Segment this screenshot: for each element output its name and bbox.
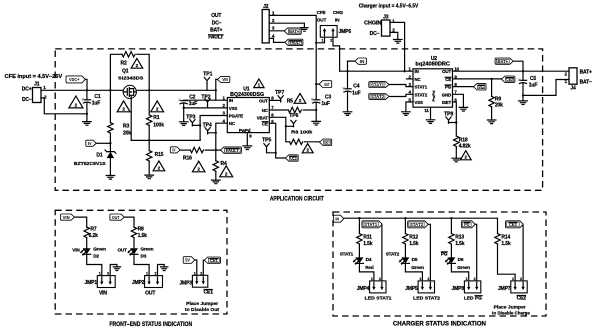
- jumper JMP8: [464, 281, 480, 293]
- svg-text:5V: 5V: [172, 148, 175, 153]
- LED D2: [83, 248, 91, 254]
- svg-text:2: 2: [474, 277, 476, 281]
- svg-text:1: 1: [99, 272, 101, 276]
- svg-text:2: 2: [158, 166, 161, 171]
- wire R16 to FAULT flag: [205, 149, 220, 151]
- wire IN line to C4: [347, 71, 349, 89]
- overline CE U1: [262, 121, 267, 123]
- wire JMP2 pin2 to ground: [158, 265, 165, 276]
- svg-text:R15: R15: [155, 152, 164, 158]
- svg-text:5V: 5V: [88, 141, 92, 146]
- svg-text:JMP5: JMP5: [405, 286, 418, 292]
- test point TP4 symbol: [205, 128, 210, 134]
- flag VIN: [217, 76, 229, 82]
- wire R3 to D1: [109, 133, 111, 151]
- flag STAT1 charger: [362, 221, 382, 228]
- wire TP3 stem tap: [192, 124, 200, 126]
- svg-text:OUT: OUT: [145, 290, 155, 296]
- junction TP3 on PGATE: [199, 124, 201, 126]
- resistor R15: [147, 151, 152, 162]
- test point TP5 symbol: [264, 144, 269, 150]
- svg-text:D5: D5: [412, 257, 418, 262]
- test point TP3 symbol: [190, 120, 195, 126]
- svg-text:1uF: 1uF: [529, 82, 538, 88]
- resistor R7: [84, 227, 89, 238]
- resistor R16: [190, 147, 203, 152]
- LED D4: [355, 257, 363, 263]
- wire R1 to gate line: [148, 125, 150, 140]
- svg-text:STAT2: STAT2: [386, 252, 400, 257]
- wire rail to R13: [450, 218, 452, 233]
- svg-text:TP5: TP5: [262, 138, 271, 144]
- overline PG at D6: [441, 251, 447, 253]
- wire J3 pin2 to ground: [390, 32, 398, 39]
- wire J4 pin1 to C5 ground: [523, 80, 569, 96]
- svg-text:OUT: OUT: [442, 69, 451, 74]
- resistor R8: [131, 227, 136, 238]
- resistor R5: [288, 107, 301, 112]
- flag 5V near D1: [86, 140, 97, 146]
- flag 5V front: [183, 257, 195, 264]
- wire D6 to JMP8 pin1: [451, 263, 468, 281]
- svg-text:VIN: VIN: [72, 248, 80, 253]
- flag PG app: [474, 84, 487, 90]
- svg-text:TP1: TP1: [203, 71, 212, 77]
- svg-text:1.5k: 1.5k: [409, 241, 419, 247]
- svg-text:OUT: OUT: [317, 18, 327, 23]
- wire STAT2 flag to U2 pin4: [389, 94, 413, 96]
- wire to OUT flag: [316, 83, 319, 85]
- svg-text:20k: 20k: [495, 103, 503, 109]
- wire D3 to JMP2 pin1: [134, 254, 149, 275]
- svg-text:R1: R1: [153, 115, 159, 121]
- capacitor C2: [180, 100, 187, 102]
- svg-text:R7: R7: [90, 226, 96, 232]
- resistor R1: [147, 115, 152, 126]
- connector J2: [262, 10, 269, 43]
- test point TP2 symbol: [205, 99, 210, 105]
- test point TP6 symbol: [291, 120, 296, 126]
- junction NC/R4/FAULT: [215, 149, 217, 151]
- svg-text:J1: J1: [34, 82, 40, 88]
- junction 5V/R3/D1: [109, 142, 111, 144]
- junction R12 on rail: [404, 217, 406, 219]
- wire R8 to D3: [133, 238, 135, 249]
- LED D5: [401, 257, 409, 263]
- junction R9 on CE line: [490, 78, 492, 80]
- ground below R18: [452, 158, 461, 162]
- note triangle 2 near R2: [131, 58, 143, 68]
- svg-text:1.5k: 1.5k: [138, 233, 148, 239]
- wire 5V to R16: [180, 149, 190, 151]
- wire rail to R12: [404, 218, 406, 233]
- svg-text:STAT1: STAT1: [371, 82, 385, 87]
- svg-text:2: 2: [225, 172, 228, 177]
- svg-text:CFE input = 4.5V–26V: CFE input = 4.5V–26V: [5, 74, 63, 80]
- ground below C5: [519, 101, 528, 105]
- svg-text:1.5k: 1.5k: [363, 241, 373, 247]
- svg-text:C4: C4: [353, 84, 359, 90]
- wire J1 pin1 to Q1 rail: [41, 89, 123, 91]
- svg-text:1.5k: 1.5k: [455, 241, 465, 247]
- junction J3 on IN line: [403, 70, 405, 72]
- wire STAT1 flag to U2 pin3: [389, 85, 413, 87]
- junction R1/R15 on gate line: [148, 139, 150, 141]
- note triangle 2 above R1: [151, 101, 164, 112]
- svg-text:Green: Green: [93, 247, 106, 252]
- svg-text:JMP7: JMP7: [498, 286, 511, 292]
- svg-text:BAT+: BAT+: [210, 27, 222, 33]
- note triangle 2 below R4: [220, 166, 233, 177]
- svg-text:JMP2: JMP2: [132, 280, 145, 286]
- wire charger IN rail: [344, 218, 498, 233]
- test point TP8 symbol: [446, 117, 451, 123]
- resistor R9: [489, 96, 494, 107]
- svg-text:R8: R8: [138, 226, 144, 232]
- svg-text:CHG: CHG: [333, 10, 343, 15]
- svg-text:2: 2: [154, 272, 156, 276]
- wire C2 to ground: [183, 104, 185, 122]
- svg-text:ISET: ISET: [442, 100, 452, 105]
- svg-text:1: 1: [371, 277, 373, 281]
- wire rail to R11: [358, 218, 360, 233]
- junction R2/R3 on rail: [109, 89, 111, 91]
- svg-text:BAT+: BAT+: [498, 59, 509, 64]
- connector J1: [33, 88, 42, 103]
- flag CE1 front: [204, 257, 220, 263]
- wire U2 NC pin2 stub: [407, 78, 414, 80]
- wire U1 pin9 to ground: [246, 133, 248, 146]
- svg-text:2: 2: [197, 167, 200, 172]
- LED D3: [130, 248, 138, 254]
- svg-text:1: 1: [466, 277, 468, 281]
- svg-text:1uF: 1uF: [352, 90, 361, 96]
- junction VSS/C2 column: [183, 107, 185, 109]
- jumper JMP5: [418, 281, 434, 293]
- ground JMP2: [161, 267, 168, 271]
- svg-text:4.82k: 4.82k: [459, 144, 471, 150]
- wire IN line to U1 pin1: [184, 99, 228, 101]
- wire JMP1 pin2 to ground: [110, 265, 117, 276]
- svg-text:2: 2: [200, 271, 202, 275]
- svg-text:DC–: DC–: [370, 31, 380, 37]
- flag VIN front: [61, 214, 75, 220]
- svg-text:D2: D2: [93, 254, 99, 259]
- wire U1 PGATE to gate line: [200, 116, 227, 141]
- svg-text:to Disable Out: to Disable Out: [185, 307, 220, 313]
- op-amp U2 bq24080DRC box: [413, 69, 453, 107]
- svg-text:R6 100k: R6 100k: [291, 130, 312, 136]
- svg-text:APPLICATION CIRCUIT: APPLICATION CIRCUIT: [270, 196, 324, 203]
- svg-text:CHGIN: CHGIN: [364, 20, 382, 26]
- svg-text:bq24080DRC: bq24080DRC: [415, 62, 450, 68]
- svg-text:NC: NC: [262, 108, 269, 113]
- flag CE2 charger: [506, 221, 524, 228]
- wire D1 to ground: [109, 158, 111, 175]
- svg-text:NC: NC: [415, 77, 422, 82]
- svg-text:CHARGER STATUS INDICATION: CHARGER STATUS INDICATION: [393, 321, 486, 328]
- svg-text:TP8: TP8: [444, 111, 453, 117]
- flag STAT2 app: [369, 94, 389, 100]
- svg-text:OUT: OUT: [324, 82, 330, 87]
- svg-text:IN: IN: [229, 98, 233, 103]
- svg-text:NC: NC: [229, 121, 236, 126]
- wire JMP6 pin1 to OUT column: [316, 37, 324, 43]
- ground below U2 VSS: [402, 112, 411, 116]
- svg-text:C2: C2: [189, 95, 195, 101]
- flag OUT front: [110, 214, 124, 220]
- ground J2 pin2: [301, 28, 308, 32]
- wire TP7 stem: [280, 100, 282, 102]
- wire C3 to ground: [315, 103, 317, 121]
- wire D5 to JMP5 pin1: [405, 263, 422, 281]
- svg-text:TP6: TP6: [289, 113, 298, 119]
- wire U1 CE pin5 to CE1 flag: [269, 123, 285, 158]
- svg-text:OUT: OUT: [259, 98, 268, 103]
- svg-text:JMP8: JMP8: [452, 286, 465, 292]
- svg-text:1uF: 1uF: [92, 101, 101, 107]
- wire TP1 stem: [206, 84, 208, 91]
- svg-text:C3: C3: [325, 94, 331, 100]
- svg-text:PwPd: PwPd: [239, 128, 251, 133]
- overline CE U2: [445, 76, 451, 78]
- svg-text:1: 1: [419, 277, 421, 281]
- note triangle 2 near R18: [460, 151, 471, 160]
- flag BAT+ J2: [284, 28, 301, 34]
- svg-text:6.2k: 6.2k: [89, 233, 99, 239]
- wire gate line to R15: [148, 140, 150, 150]
- wire J2 pin2 to ground: [269, 23, 304, 27]
- svg-text:JMP3: JMP3: [179, 280, 192, 286]
- resistor R11: [357, 234, 362, 245]
- svg-text:OUT: OUT: [211, 13, 221, 19]
- overline PG in LED PG: [475, 295, 482, 297]
- wire U1 VSS to C2 ground column: [184, 107, 228, 109]
- svg-text:R11: R11: [363, 235, 372, 241]
- svg-text:J4: J4: [570, 85, 576, 91]
- svg-text:2: 2: [306, 148, 309, 153]
- svg-text:STAT1: STAT1: [415, 85, 428, 90]
- capacitor C4: [344, 88, 351, 90]
- flag BAT+ near C5: [495, 58, 513, 64]
- wire TP8 stem tap: [449, 122, 457, 125]
- wire U1 OUT pin8 stub: [269, 99, 280, 101]
- junction rail/VIN vertical: [215, 89, 217, 91]
- svg-text:OUT: OUT: [112, 215, 120, 220]
- svg-text:PGATE: PGATE: [229, 114, 243, 119]
- svg-text:CE1: CE1: [204, 290, 214, 296]
- resistor R2: [122, 52, 135, 57]
- flag FAULT J2: [285, 39, 303, 45]
- wire gate node to PGATE: [131, 139, 200, 141]
- wire U1 NC pin4 down: [216, 123, 228, 150]
- svg-text:BAT+: BAT+: [289, 29, 300, 34]
- ground below C4: [343, 112, 352, 116]
- svg-text:BQ24300DSG: BQ24300DSG: [230, 92, 264, 98]
- op-amp U1 BQ24300DSG box: [227, 98, 269, 133]
- svg-text:STAT1: STAT1: [340, 252, 354, 257]
- wire C5 to ground: [522, 84, 524, 101]
- svg-text:R5: R5: [287, 99, 293, 105]
- wire STAT1 flag to JMP4 pin2: [381, 226, 383, 281]
- wire VIN node vertical: [215, 79, 217, 100]
- svg-text:BAT+: BAT+: [324, 140, 330, 145]
- connector J3: [382, 20, 391, 36]
- svg-text:2: 2: [427, 277, 429, 281]
- svg-text:JMP1: JMP1: [85, 280, 98, 286]
- junction OUT flag: [315, 83, 317, 85]
- ground below D1: [106, 176, 115, 180]
- svg-text:PwPd: PwPd: [431, 90, 436, 101]
- wire STAT2 flag to JMP5 pin2: [428, 224, 430, 281]
- svg-text:VIN: VIN: [222, 77, 228, 82]
- svg-text:DC–: DC–: [22, 97, 32, 103]
- wire rail to C5: [522, 71, 524, 80]
- jumper JMP7: [511, 281, 527, 293]
- svg-text:JMP6: JMP6: [339, 29, 352, 35]
- wire D2 to JMP1 pin1: [87, 254, 102, 275]
- svg-text:STAT2: STAT2: [410, 222, 424, 227]
- svg-text:Place Jumper: Place Jumper: [186, 301, 218, 307]
- svg-text:STAT2: STAT2: [371, 94, 385, 99]
- wire R11 to D4: [358, 244, 360, 257]
- note triangle 2 near J1: [69, 96, 83, 108]
- jumper JMP4: [370, 281, 386, 293]
- wire U1 NC pin7 to R5: [269, 109, 288, 111]
- svg-text:STAT1: STAT1: [364, 222, 378, 227]
- svg-text:VSS: VSS: [415, 100, 424, 105]
- wire JMP6 pin2 to IN line: [333, 37, 340, 71]
- junction R2/R1 on rail: [148, 89, 150, 91]
- front-end status dashed border: [55, 210, 227, 314]
- note triangle 2 below R16: [192, 161, 205, 172]
- wire TP5 stem tap: [267, 150, 276, 153]
- junction BAT+/C5 on OUT rail: [522, 70, 524, 72]
- flag CE2 app: [502, 76, 515, 82]
- wire R4 to ground: [215, 171, 217, 180]
- junction TP5 on CE: [275, 152, 277, 154]
- wire U2 CE to CE2 flag: [453, 78, 502, 80]
- wire J3 pin1 to IN line: [390, 22, 405, 71]
- svg-text:FRONT–END STATUS INDICATION: FRONT–END STATUS INDICATION: [109, 321, 192, 328]
- svg-text:R2: R2: [121, 60, 127, 66]
- svg-text:Place Jumper: Place Jumper: [494, 305, 526, 311]
- svg-text:D3: D3: [141, 254, 147, 259]
- svg-text:DC+: DC+: [22, 87, 32, 93]
- note triangle 2 below R15: [153, 161, 165, 171]
- ground J3 pin2: [394, 40, 403, 44]
- junction IN flag/C4: [346, 70, 348, 72]
- note triangle 2 below Q1: [117, 101, 130, 112]
- svg-text:GND: GND: [442, 92, 451, 97]
- junction TP4 on NC line: [215, 132, 217, 134]
- resistor R6: [290, 139, 303, 144]
- flag VDC+: [66, 76, 85, 83]
- capacitor C3: [313, 99, 320, 101]
- svg-text:C5: C5: [530, 76, 536, 82]
- overline CE1 below JMP3: [204, 289, 212, 291]
- svg-text:J3: J3: [383, 14, 389, 20]
- ground below R15: [145, 175, 154, 179]
- wire node to R4: [215, 150, 217, 161]
- svg-text:D6: D6: [458, 257, 464, 262]
- ground below R4: [212, 180, 221, 184]
- ground below U1 pin9: [243, 146, 252, 150]
- svg-text:Green: Green: [411, 265, 424, 270]
- wire C1 to ground: [86, 103, 88, 121]
- flag IN charger: [333, 215, 343, 222]
- capacitor C1: [83, 99, 90, 101]
- flag BAT+ near R6: [320, 139, 332, 146]
- svg-text:VBAT: VBAT: [257, 115, 268, 120]
- svg-text:2: 2: [299, 98, 302, 103]
- wire R12 to D5: [404, 244, 406, 257]
- svg-text:R12: R12: [409, 235, 418, 241]
- svg-text:R14: R14: [501, 235, 510, 241]
- svg-text:Green: Green: [141, 247, 154, 252]
- wire CE2 flag to JMP7 pin2: [522, 226, 524, 281]
- flag STAT1 app: [369, 82, 389, 88]
- wire rail to C1: [86, 90, 88, 100]
- svg-text:R9: R9: [495, 96, 501, 102]
- junction VDC+/C1 on rail: [86, 89, 88, 91]
- flag IN app: [355, 58, 367, 64]
- ground JMP1: [113, 267, 120, 271]
- junction R11 on rail: [358, 217, 360, 219]
- wire R14 to JMP7 pin1: [498, 244, 516, 281]
- overline PG U2: [445, 84, 451, 86]
- wire J1 pin2 return: [41, 98, 87, 114]
- note triangle 1 near U1: [254, 79, 264, 88]
- junction TP8 on ISET: [455, 121, 457, 123]
- svg-text:D4: D4: [366, 257, 372, 262]
- svg-text:20k: 20k: [123, 131, 131, 137]
- wire U2 ISET down to R18: [453, 102, 457, 136]
- jumper JMP3: [192, 275, 207, 287]
- svg-text:2: 2: [156, 107, 159, 112]
- note triangle 2 near R5: [294, 93, 306, 103]
- svg-text:R13: R13: [455, 235, 464, 241]
- svg-text:1: 1: [322, 39, 324, 43]
- resistor R13: [449, 234, 454, 245]
- resistor R4: [213, 161, 218, 172]
- svg-text:Q1: Q1: [122, 69, 129, 75]
- charger status dashed border: [333, 212, 546, 316]
- svg-text:Green: Green: [457, 265, 470, 270]
- junction R5/OUT column: [315, 109, 317, 111]
- wire C4 to ground: [347, 92, 349, 112]
- svg-text:DC–: DC–: [212, 20, 222, 26]
- svg-text:1.5k: 1.5k: [501, 241, 511, 247]
- wire J2 pin1 to OUT column: [269, 15, 316, 99]
- wire TP6 stem tap: [286, 125, 294, 127]
- wire U2 PG to PG flag: [453, 86, 474, 88]
- svg-text:IN: IN: [335, 18, 340, 23]
- svg-text:5V: 5V: [185, 258, 190, 263]
- wire rail to R1: [148, 90, 150, 115]
- ground below R9: [487, 120, 496, 124]
- svg-text:2: 2: [330, 39, 332, 43]
- svg-text:1uF: 1uF: [189, 101, 198, 107]
- svg-text:VSS: VSS: [229, 106, 238, 111]
- svg-text:C1: C1: [94, 94, 100, 100]
- wire BAT+ flag to OUT rail: [513, 61, 523, 71]
- wire VDC+ to rail: [85, 79, 87, 90]
- flag STAT2 charger: [408, 221, 428, 228]
- wire OUT flag to R8: [124, 217, 134, 227]
- flag OUT app: [319, 81, 332, 88]
- svg-text:IN: IN: [360, 59, 365, 64]
